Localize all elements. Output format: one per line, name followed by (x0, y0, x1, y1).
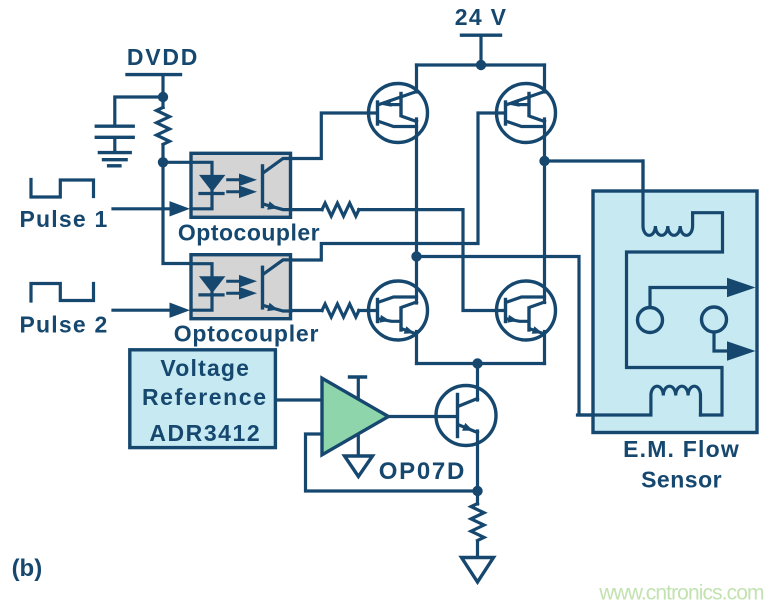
wire Pulse 1 input arrow (113, 201, 190, 216)
wire Q5 emitter down (476, 431, 479, 504)
net label DVDD (127, 44, 199, 70)
junction dot DVDD node (158, 92, 168, 102)
label Reference (142, 384, 268, 410)
wire R4 to ground arrow (476, 542, 479, 557)
svg-text:ADR3412: ADR3412 (149, 420, 261, 446)
wire opto1 emitter to resistor R2 (291, 208, 323, 211)
wire R2 to Q4 base (359, 210, 505, 311)
pulse 1 waveform icon (31, 180, 94, 198)
electrode 1 with flow arrow (638, 278, 756, 333)
label Pulse 1 (20, 206, 109, 232)
resistor R4 (emitter) (471, 504, 484, 541)
light arrow 1 U1 (228, 174, 257, 187)
svg-text:Voltage: Voltage (160, 355, 250, 381)
wire emitter join (417, 362, 545, 365)
power rail bar 24V (462, 34, 501, 37)
junction dot opto1 anode node (158, 157, 168, 167)
junction dot node B (539, 156, 549, 166)
V- down arrow symbol (345, 456, 373, 477)
label (b) (12, 555, 43, 582)
svg-text:Pulse 2: Pulse 2 (20, 311, 109, 337)
junction dot node A (411, 251, 421, 261)
wire feedback from emitter node to op-amp inverting input (306, 434, 478, 491)
LED input wire bracket U2 (191, 264, 212, 311)
light arrow 1 U2 (228, 275, 257, 288)
wire op-amp output to Q5 base (388, 415, 456, 418)
svg-text:Optocoupler: Optocoupler (178, 220, 320, 246)
label Sensor (641, 467, 722, 493)
wire opto2 collector to Q2 base (291, 113, 504, 260)
electrode 2 with flow arrow (702, 307, 756, 361)
phototransistor U2 (263, 260, 292, 311)
op-amp V- supply stub (357, 435, 360, 455)
light arrow 2 U2 (228, 287, 257, 300)
wire DVDD bar to resistor (161, 75, 164, 108)
svg-text:Reference: Reference (142, 384, 268, 410)
resistor R2 (Q4 base) (322, 203, 359, 216)
wire to opto1 anode (163, 161, 191, 164)
ground (99, 153, 130, 166)
ground arrow (down triangle) (462, 558, 494, 583)
transistor Q5 (NPN) (436, 386, 496, 446)
block U3 Voltage Reference ADR3412 (130, 350, 276, 448)
junction dot 24V rail (476, 60, 486, 70)
label Optocoupler (upper) (178, 220, 320, 246)
sensor coil L2 (bottom) (578, 386, 701, 415)
sensor coil L1 (top) and pipe path (627, 161, 723, 415)
label ADR3412 (149, 420, 261, 446)
optocoupler body (gray box) U2 (191, 255, 291, 319)
power rail bar DVDD (127, 73, 181, 76)
phototransistor U1 (263, 159, 292, 210)
label Pulse 2 (20, 311, 109, 337)
svg-text:Optocoupler: Optocoupler (174, 321, 320, 347)
wire resistor to opto2 anode (163, 146, 190, 263)
LED (photodiode emitter) U1 (199, 175, 225, 194)
capacitor C1 (96, 126, 133, 151)
label OP07D (379, 458, 466, 485)
wire Pulse 2 input arrow (113, 303, 190, 318)
light arrow 2 U1 (228, 186, 257, 199)
wire Q4 emitter down (543, 332, 546, 364)
svg-text:DVDD: DVDD (127, 44, 199, 70)
wire 24V rail (417, 63, 545, 66)
wire 24V stub (479, 36, 482, 65)
watermark www.cntronics.com (598, 582, 764, 605)
wire Q1 collector to node A (415, 119, 418, 303)
junction dot emitter node (472, 358, 482, 368)
op-amp U4 OP07D (322, 378, 388, 455)
label E.M. Flow (623, 436, 740, 462)
svg-text:E.M. Flow: E.M. Flow (623, 436, 740, 462)
junction dot feedback node (472, 486, 482, 496)
net label 24 V (455, 4, 508, 30)
transistor Q3 (NPN darlington, low side left) (369, 281, 428, 340)
svg-text:www.cntronics.com: www.cntronics.com (598, 582, 764, 605)
wire node B to sensor top (545, 161, 644, 225)
wire Q3 emitter down (415, 332, 418, 364)
wire node A to sensor bottom (417, 257, 652, 416)
pulse 2 waveform icon (31, 284, 94, 302)
svg-text:24 V: 24 V (455, 4, 508, 30)
label Voltage (160, 355, 250, 381)
resistor R1 (DVDD pullup) (157, 107, 170, 144)
transistor Q4 (NPN darlington, low side right) (497, 281, 556, 340)
wire R3 to Q3 base (359, 309, 376, 312)
svg-text:Pulse 1: Pulse 1 (20, 206, 109, 232)
label Optocoupler (lower) (174, 321, 320, 347)
op-amp V+ supply stub (350, 377, 366, 399)
block E.M. Flow Sensor body (593, 191, 757, 433)
transistor Q1 (PNP darlington, high side left) (369, 84, 428, 143)
wire rail to Q1 emitter (415, 65, 418, 92)
wire VR output to op-amp +input (277, 398, 322, 401)
transistor Q2 (PNP darlington, high side right) (497, 84, 556, 143)
svg-text:OP07D: OP07D (379, 458, 466, 485)
wire emitter node to Q5 collector (476, 364, 479, 401)
LED (photodiode emitter) U2 (199, 276, 225, 295)
svg-text:Sensor: Sensor (641, 467, 722, 493)
wire opto2 emitter to resistor R3 (291, 309, 322, 312)
wire DVDD to capacitor (115, 97, 163, 125)
optocoupler body (gray box) U1 (191, 153, 291, 217)
resistor R3 (Q3 base) (322, 304, 359, 317)
wire Q2 collector to node B and Q4 (543, 119, 546, 303)
svg-text:(b): (b) (12, 555, 43, 582)
LED input wire bracket U1 (191, 162, 212, 209)
wire rail to Q2 emitter (543, 65, 546, 92)
wire opto1 collector to Q1 base (291, 113, 377, 159)
